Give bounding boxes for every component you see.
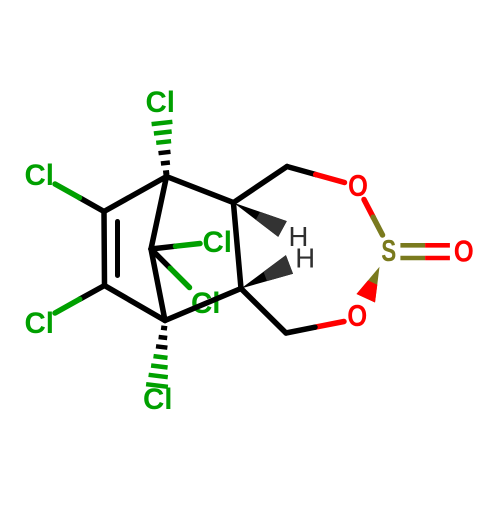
- wire O bottom-C9: [286, 322, 344, 334]
- svg-text:O: O: [347, 299, 367, 333]
- svg-text:Cl: Cl: [203, 226, 233, 259]
- svg-text:O: O: [348, 169, 368, 203]
- svg-text:H: H: [295, 242, 315, 273]
- svg-text:Cl: Cl: [25, 159, 55, 192]
- wire C1-C2: [104, 177, 167, 212]
- wire C1-C5: [167, 177, 234, 203]
- wire C1-C7 bridge: [151, 177, 167, 250]
- wire C5-C6: [233, 203, 241, 289]
- wire O top-S: [364, 200, 383, 236]
- wire C7-Cl lower: [151, 249, 190, 288]
- wedge bond C5-H (solid): [233, 203, 286, 237]
- wire S=O double bond: [400, 245, 450, 258]
- wire C5-C8: [233, 167, 287, 203]
- svg-text:O: O: [454, 235, 474, 269]
- wire C2-Cl left top: [55, 184, 104, 212]
- svg-text:Cl: Cl: [143, 383, 173, 416]
- wire C4-C6 (drawn above label): [165, 289, 241, 321]
- wire C8-O top: [287, 167, 345, 183]
- wire C3-C4: [105, 286, 166, 321]
- wire C3-Cl left bottom: [55, 286, 105, 314]
- hashed wedge C1-Cl top: [152, 122, 173, 173]
- wedge bond S-O bottom (solid): [357, 267, 380, 303]
- wire C7-Cl upper: [151, 244, 200, 250]
- hashed wedge C4-Cl bottom: [146, 328, 168, 387]
- wire C7-C4 bridge: [151, 249, 165, 321]
- svg-text:Cl: Cl: [25, 307, 55, 340]
- wire C9-C6: [241, 289, 286, 334]
- svg-text:S: S: [381, 234, 396, 268]
- svg-text:Cl: Cl: [146, 86, 176, 119]
- wire C2=C3 double bond: [104, 212, 118, 286]
- wedge bond C6-H (solid): [241, 255, 293, 288]
